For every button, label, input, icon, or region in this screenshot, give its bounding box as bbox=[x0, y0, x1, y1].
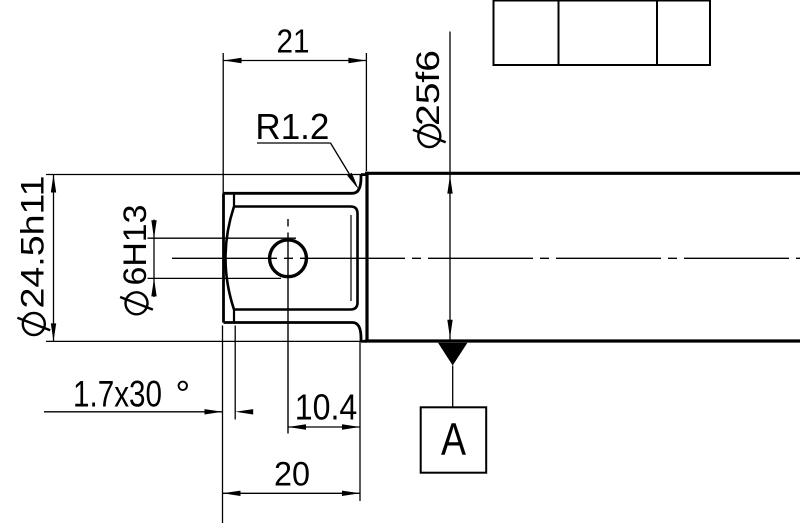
svg-text:6H13: 6H13 bbox=[117, 205, 153, 286]
svg-text:21: 21 bbox=[277, 22, 310, 59]
svg-text:R1.2: R1.2 bbox=[255, 106, 329, 147]
svg-text:°: ° bbox=[175, 373, 190, 414]
svg-text:10.4: 10.4 bbox=[295, 387, 358, 428]
svg-text:24.5h11: 24.5h11 bbox=[14, 176, 50, 309]
svg-text:25f6: 25f6 bbox=[410, 50, 446, 126]
svg-text:A: A bbox=[441, 414, 466, 465]
svg-text:20: 20 bbox=[274, 456, 310, 494]
svg-text:1.7x30: 1.7x30 bbox=[73, 373, 162, 414]
